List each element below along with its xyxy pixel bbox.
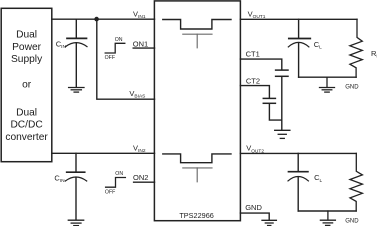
svg-text:Supply: Supply	[11, 54, 43, 65]
wire VIN2 rail (box to block)	[52, 152, 155, 154]
wire CT1	[240, 59, 281, 69]
wire GND pin	[240, 213, 269, 220]
wire bottom rail ch2	[298, 210, 356, 212]
wire ON1	[133, 47, 154, 49]
svg-text:or: or	[22, 80, 32, 91]
svg-text:TPS22966: TPS22966	[179, 211, 213, 220]
svg-text:GND: GND	[345, 219, 359, 225]
svg-text:CT1: CT1	[246, 50, 260, 59]
svg-text:ON1: ON1	[133, 39, 148, 48]
gate Q1	[183, 34, 212, 48]
transistor Q2 (pass FET ch2)	[163, 154, 231, 163]
capacitor CT2	[263, 98, 275, 103]
svg-text:DC/DC: DC/DC	[10, 120, 42, 131]
svg-text:Dual: Dual	[16, 107, 37, 118]
svg-text:GND: GND	[245, 203, 262, 212]
capacitor CL (ch2)	[288, 153, 308, 211]
svg-text:ON: ON	[115, 37, 123, 43]
resistor RL (ch2)	[350, 153, 362, 211]
svg-text:Power: Power	[12, 42, 41, 53]
switch waveform ON2	[106, 178, 126, 188]
switch waveform ON1	[105, 43, 125, 53]
svg-text:ON2: ON2	[133, 173, 148, 182]
junction dot node VIN1	[94, 17, 99, 22]
ground (CIN top)	[69, 88, 84, 93]
svg-text:OFF: OFF	[105, 189, 115, 195]
capacitor CL (ch1)	[288, 19, 310, 77]
IC U1 TPS22966 block	[154, 1, 240, 221]
ground (out ch1)	[320, 77, 335, 92]
wire VOUT1	[240, 18, 357, 20]
ground (CT node)	[275, 130, 290, 138]
svg-text:ON: ON	[115, 171, 123, 177]
wire CT1 cap to ground	[281, 77, 283, 130]
wire ON2	[134, 181, 155, 183]
ground (GND pin)	[262, 220, 276, 225]
wire CT2	[240, 86, 269, 98]
ground (CIN bottom)	[68, 220, 83, 225]
capacitor CIN (bottom)	[65, 153, 86, 219]
svg-text:converter: converter	[5, 132, 48, 143]
wire bottom rail ch1	[299, 76, 357, 78]
wire VBIAS branch	[97, 19, 155, 99]
svg-text:GND: GND	[345, 85, 359, 91]
svg-text:CT2: CT2	[246, 77, 260, 86]
ground (out ch2)	[320, 211, 335, 225]
transistor Q1 (pass FET ch1)	[163, 20, 231, 30]
gate Q2	[183, 168, 212, 182]
source box label	[5, 30, 48, 143]
wire CT2 to CT node	[269, 104, 281, 120]
capacitor CIN (top)	[66, 19, 87, 87]
wire VIN1 rail (box to block)	[52, 18, 155, 20]
svg-text:Dual: Dual	[16, 30, 37, 41]
source box	[1, 8, 52, 161]
wire VOUT2	[240, 152, 356, 154]
capacitor CT1	[276, 70, 288, 76]
resistor RL (ch1)	[350, 19, 362, 77]
svg-text:OFF: OFF	[105, 55, 115, 61]
